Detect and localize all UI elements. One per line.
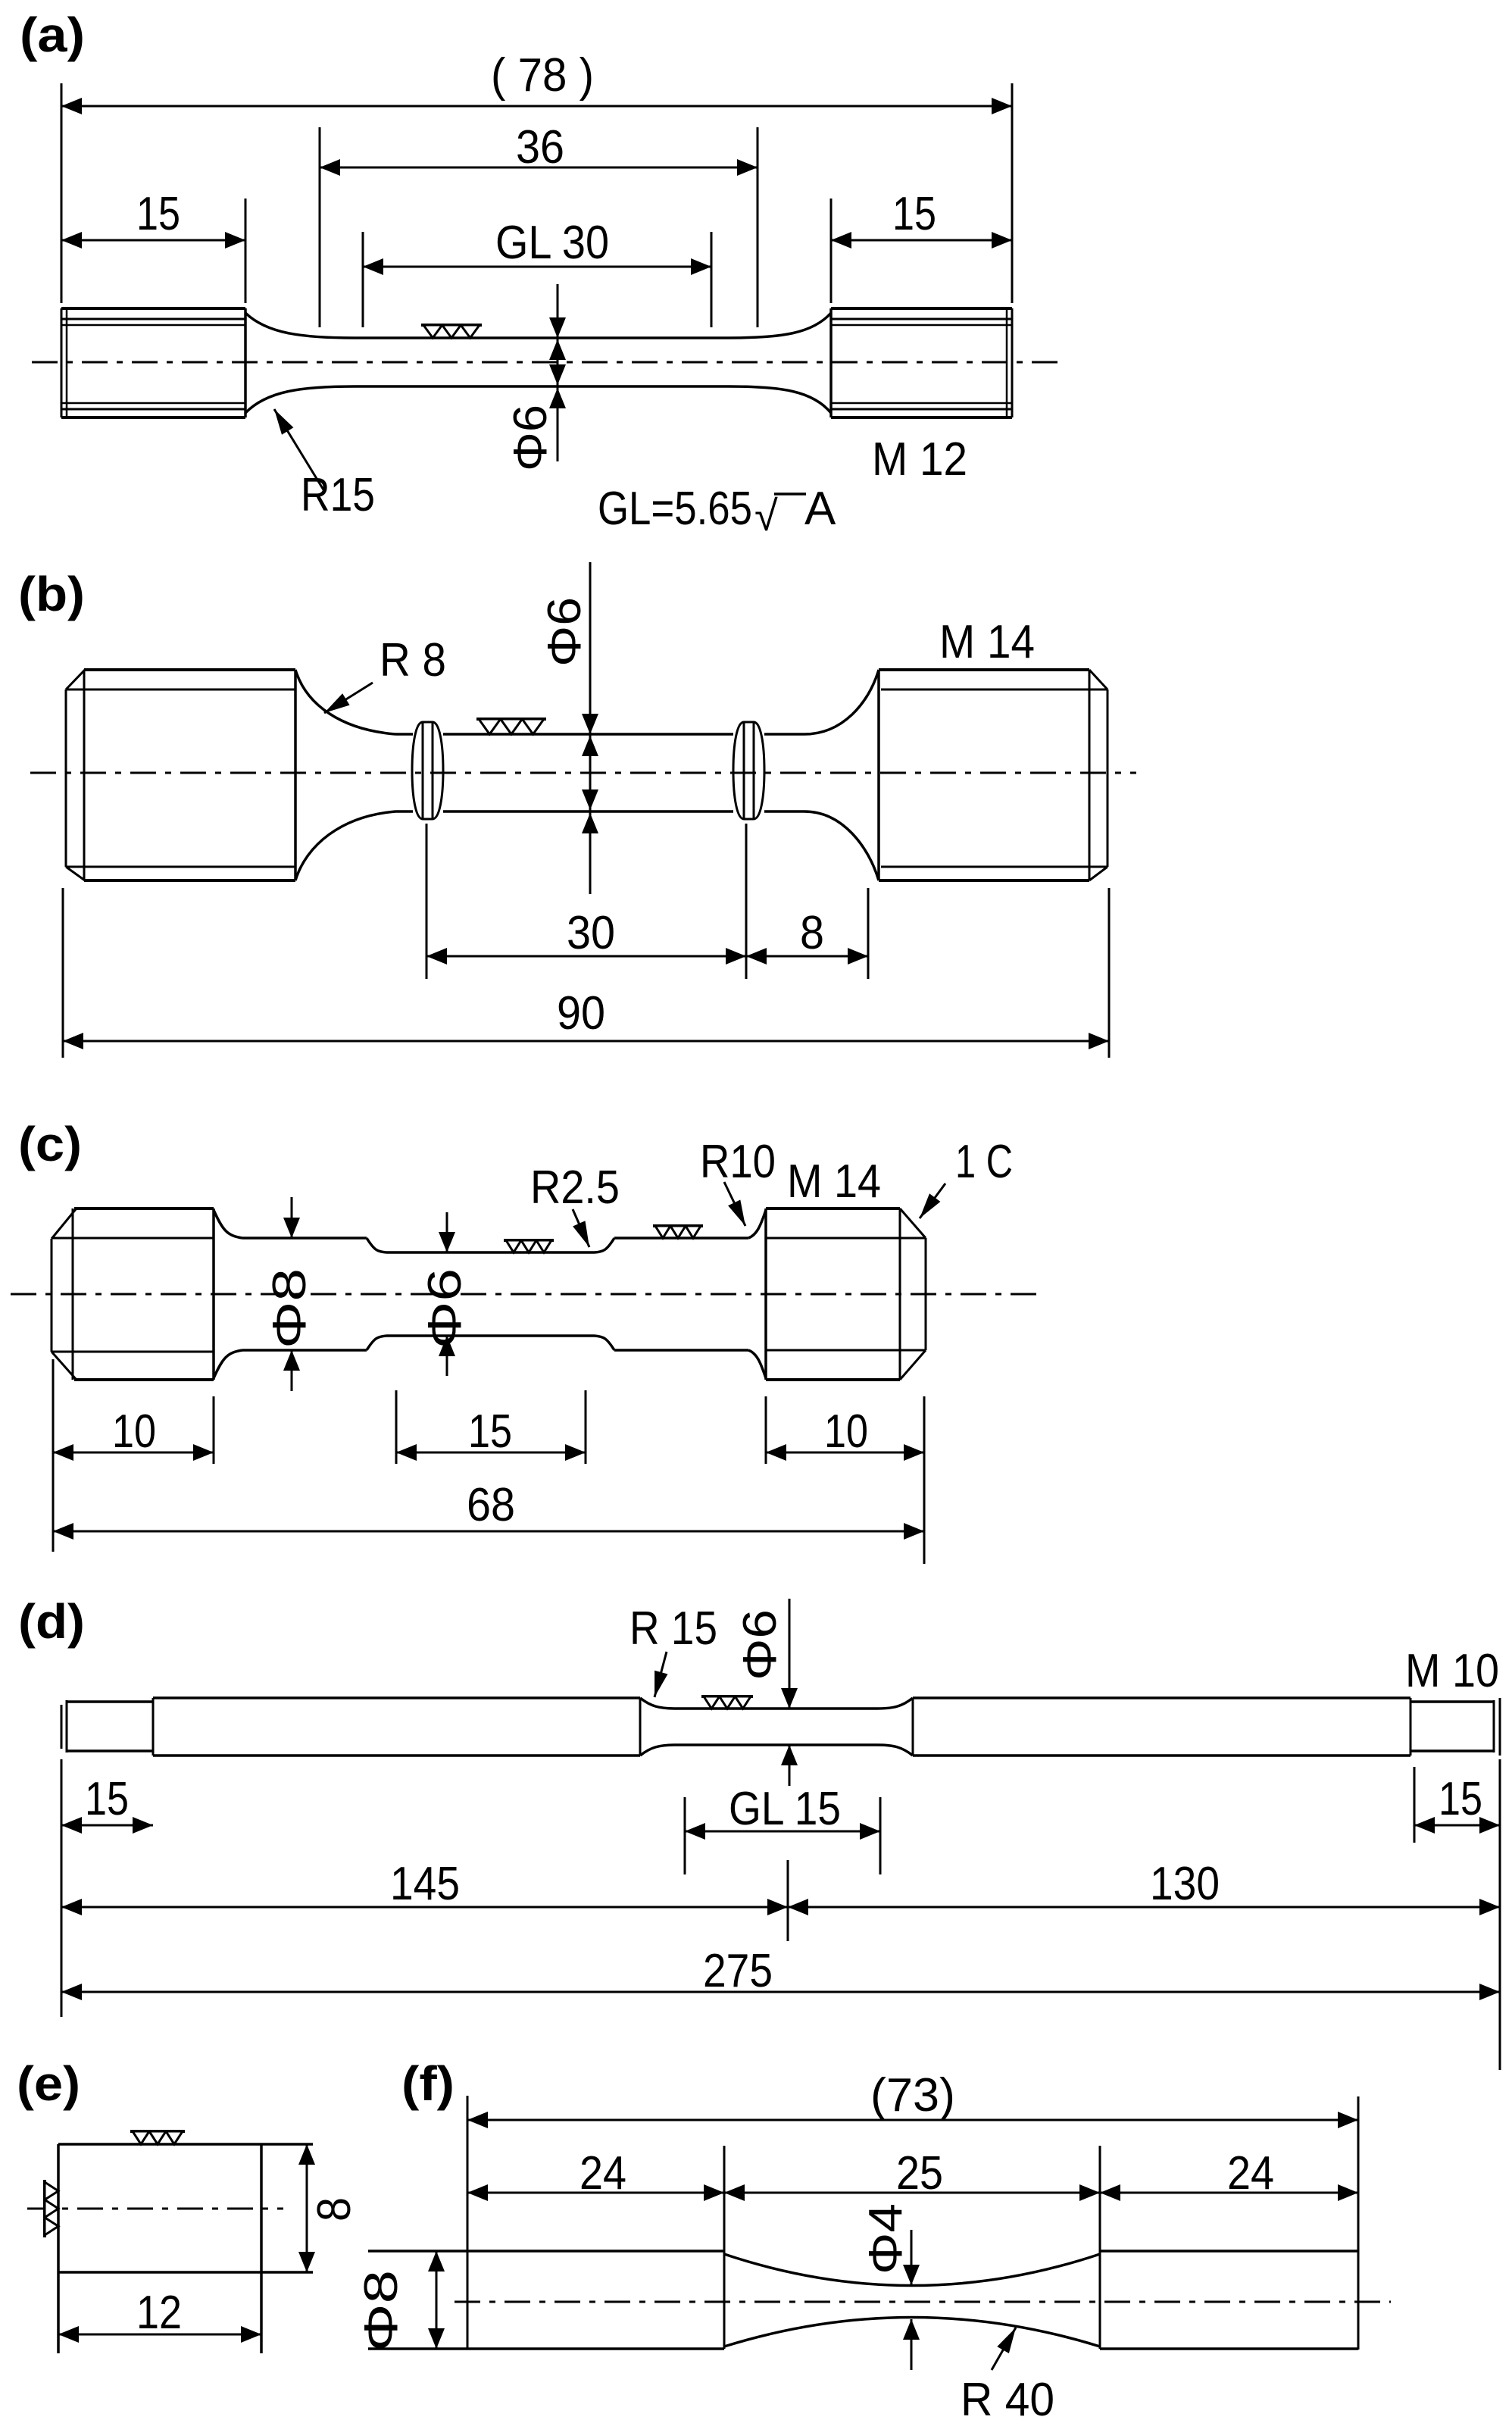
specimen (b) right grip M14 <box>879 670 1107 880</box>
dimension (d) 130 <box>788 1858 1500 1915</box>
specimen (b) right ridge collar <box>733 722 764 819</box>
dimension (f) 24 right <box>1100 2147 1358 2201</box>
dimension (b) 30 <box>426 824 746 979</box>
specimen (a) right grip M12 <box>831 308 1012 417</box>
svg-text:15: 15 <box>85 1773 129 1825</box>
svg-text:Φ6: Φ6 <box>539 597 591 667</box>
dimension (b) phi 6 <box>539 562 598 894</box>
specimen (a) left fillet R15 <box>245 313 355 413</box>
svg-text:10: 10 <box>824 1405 868 1458</box>
dimension (a) phi 6 <box>505 284 566 471</box>
specimen (d) right fillet <box>877 1698 913 1756</box>
label (f) R 40 with leader <box>961 2328 1054 2420</box>
specimen (b) left grip M14 <box>66 670 295 880</box>
label (b) M 14 <box>939 616 1035 668</box>
roughness symbol (e) left <box>45 2180 58 2237</box>
specimen (a) gauge section phi6 <box>355 338 729 386</box>
dimension (c) 68 overall <box>53 1479 924 1540</box>
dimension (a) 36 <box>320 121 758 327</box>
svg-text:(f): (f) <box>401 2056 455 2111</box>
specimen (c) phi8 left section <box>242 1238 367 1350</box>
dimension (d) phi 6 <box>734 1599 798 1786</box>
figure (b) label <box>18 567 85 621</box>
svg-text:130: 130 <box>1150 1858 1220 1910</box>
specimen (c) left grip M14 <box>52 1208 214 1380</box>
svg-text:275: 275 <box>703 1945 773 1997</box>
svg-text:30: 30 <box>567 907 615 959</box>
dimension (c) phi 6 <box>419 1212 471 1376</box>
specimen (c) R2.5 fillet left <box>367 1238 386 1350</box>
roughness symbol (e) top <box>130 2131 185 2144</box>
svg-text:GL 30: GL 30 <box>495 217 609 269</box>
dimension (f) phi 4 <box>860 2203 920 2370</box>
dimension (c) 10 right <box>766 1396 924 1564</box>
svg-text:Φ8: Φ8 <box>264 1268 316 1349</box>
svg-text:Φ4: Φ4 <box>860 2203 912 2275</box>
dimension (c) 15 <box>396 1390 586 1464</box>
svg-text:(d): (d) <box>18 1594 85 1649</box>
figure (f) label <box>401 2056 455 2111</box>
dimension (e) 12 <box>58 2287 261 2343</box>
centerline (c) <box>11 1293 1038 1296</box>
specimen (f) rod left section phi8 <box>368 2096 724 2349</box>
centerline (e) <box>27 2208 283 2210</box>
dimension (e) 8 <box>298 2144 361 2272</box>
svg-text:(c): (c) <box>18 1117 82 1171</box>
specimen (b) gauge section phi6 <box>443 734 733 811</box>
specimen (d) left fillet R15 <box>640 1698 676 1756</box>
specimen (a) left grip M12 <box>61 308 245 417</box>
label (d) M 10 <box>1405 1645 1499 1697</box>
dimension (d) 15 right <box>1414 1759 1500 2070</box>
specimen (f) rod right section phi8 <box>1100 2096 1358 2350</box>
svg-text:GL 15: GL 15 <box>729 1783 841 1835</box>
svg-text:M 10: M 10 <box>1405 1645 1499 1697</box>
svg-text:R2.5: R2.5 <box>530 1162 620 1214</box>
dimension (d) GL 15 <box>685 1783 880 1874</box>
dimension (d) 145 <box>61 1844 788 2017</box>
svg-text:(e): (e) <box>17 2056 80 2111</box>
centerline (f) <box>455 2301 1391 2303</box>
label (a) R15 with leader <box>274 409 375 521</box>
svg-text:√: √ <box>754 492 778 539</box>
dimension (f) 24 left <box>467 2147 724 2201</box>
svg-text:10: 10 <box>112 1405 156 1458</box>
svg-text:15: 15 <box>1439 1773 1482 1825</box>
dimension (a) 15 left <box>61 188 245 303</box>
specimen (a) right fillet <box>729 313 831 413</box>
dimension (b) 90 overall <box>63 888 1109 1058</box>
svg-text:A: A <box>804 483 836 535</box>
label (c) M 14 <box>787 1155 881 1208</box>
specimen (c) phi8 right section <box>614 1238 748 1350</box>
svg-text:(73): (73) <box>870 2069 955 2121</box>
label (c) R10 with leader <box>700 1136 776 1226</box>
svg-text:Φ6: Φ6 <box>419 1268 471 1349</box>
specimen (f) hourglass R40 waist <box>724 2146 1100 2349</box>
roughness symbol (c) on gauge <box>504 1240 554 1252</box>
dimension (a) (78) overall <box>61 49 1012 303</box>
specimen (d) gauge section phi6 <box>676 1709 877 1745</box>
svg-text:(b): (b) <box>18 567 85 621</box>
specimen (d) rod right section <box>913 1698 1410 1756</box>
label (b) R 8 with leader <box>324 634 446 713</box>
svg-text:145: 145 <box>390 1858 460 1910</box>
svg-text:(a): (a) <box>20 8 85 62</box>
label (a) M 12 <box>872 433 967 486</box>
svg-text:15: 15 <box>136 188 180 240</box>
svg-text:Φ8: Φ8 <box>355 2270 408 2352</box>
dimension (b) 8 <box>746 888 868 979</box>
label (a) gauge formula GL=5.65 sqrt A <box>598 483 836 539</box>
dimension (c) 10 left <box>53 1359 214 1552</box>
specimen (c) gauge section phi6 <box>386 1252 595 1336</box>
svg-text:GL=5.65: GL=5.65 <box>598 483 752 535</box>
specimen (c) R2.5 fillet right <box>595 1238 614 1350</box>
dimension (c) phi 8 <box>264 1197 316 1391</box>
svg-text:68: 68 <box>467 1479 515 1531</box>
dimension (d) 275 overall <box>61 1945 1500 2000</box>
specimen (d) left threaded end M10 <box>61 1698 153 1756</box>
svg-text:8: 8 <box>308 2197 361 2221</box>
svg-text:R 15: R 15 <box>629 1602 717 1655</box>
specimen (b) left fillet R8 <box>295 670 413 880</box>
centerline (a) <box>32 361 1057 364</box>
svg-text:R 8: R 8 <box>380 634 446 686</box>
figure (a) label <box>20 8 85 62</box>
svg-text:Φ6: Φ6 <box>734 1609 786 1681</box>
label (c) 1 C with leader <box>920 1136 1013 1218</box>
svg-text:R15: R15 <box>301 469 375 521</box>
dimension (a) GL 30 <box>363 217 711 327</box>
label (d) R 15 with leader <box>629 1602 717 1697</box>
roughness symbol (c) on phi8 <box>653 1226 703 1238</box>
svg-text:Φ6: Φ6 <box>505 405 557 471</box>
specimen (c) left step fillet <box>214 1210 242 1378</box>
svg-text:1 C: 1 C <box>955 1136 1013 1188</box>
specimen (e) rectangular bar outline <box>58 2144 313 2353</box>
dimension (f) phi 8 <box>355 2251 445 2352</box>
svg-text:15: 15 <box>468 1405 512 1458</box>
specimen (c) R10 fillet right <box>748 1210 766 1378</box>
dimension (a) 15 right <box>831 188 1012 303</box>
svg-text:15: 15 <box>892 188 936 240</box>
svg-text:90: 90 <box>557 987 605 1040</box>
svg-text:12: 12 <box>136 2287 182 2339</box>
svg-text:24: 24 <box>579 2147 626 2200</box>
centerline (b) <box>30 772 1136 774</box>
label (c) R2.5 with leader <box>530 1162 620 1247</box>
svg-text:R 40: R 40 <box>961 2374 1054 2420</box>
svg-text:M 12: M 12 <box>872 433 967 486</box>
specimen (c) right grip M14 with 1C chamfer <box>766 1208 926 1380</box>
svg-text:M 14: M 14 <box>939 616 1035 668</box>
figure (e) label <box>17 2056 80 2111</box>
svg-text:24: 24 <box>1227 2147 1274 2200</box>
dimension (f) (73) overall <box>467 2069 1358 2128</box>
svg-text:36: 36 <box>516 121 564 174</box>
dimension (f) 25 <box>724 2147 1100 2201</box>
specimen (d) right threaded end M10 <box>1410 1698 1500 1756</box>
roughness symbol (d) <box>701 1696 753 1709</box>
svg-text:25: 25 <box>896 2147 943 2200</box>
svg-text:8: 8 <box>800 907 824 959</box>
specimen (b) right fillet <box>764 670 879 880</box>
specimen (d) rod left section <box>153 1698 640 1756</box>
roughness symbol (b) <box>476 719 546 734</box>
figure (c) label <box>18 1117 82 1171</box>
specimen (b) left ridge collar <box>412 722 443 819</box>
dimension (d) 15 left <box>61 1759 153 1844</box>
svg-text:R10: R10 <box>700 1136 776 1188</box>
roughness symbol (a) <box>421 325 482 338</box>
figure (d) label <box>18 1594 85 1649</box>
svg-text:( 78 ): ( 78 ) <box>491 49 594 102</box>
svg-text:M 14: M 14 <box>787 1155 881 1208</box>
